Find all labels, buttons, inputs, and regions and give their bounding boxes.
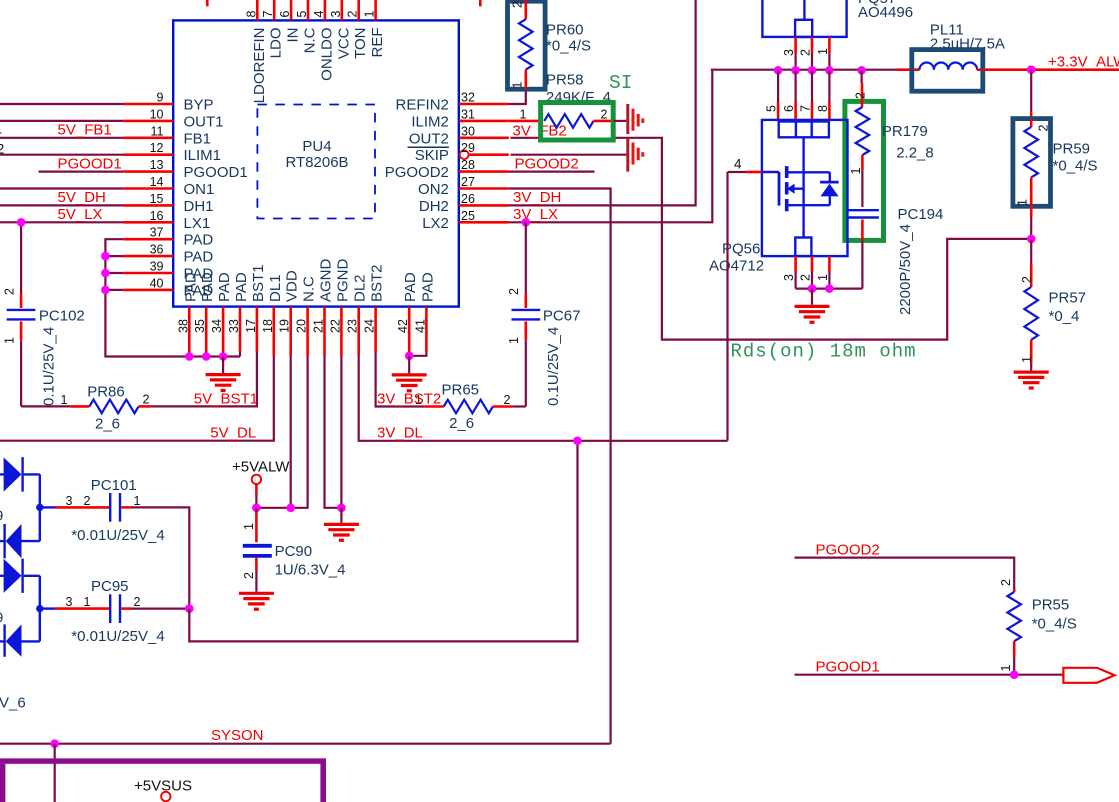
- svg-text:AO4712: AO4712: [709, 258, 764, 275]
- svg-text:33: 33: [227, 319, 241, 333]
- wire PAD 36 stub: [105, 255, 123, 257]
- svg-text:1: 1: [134, 494, 141, 508]
- svg-text:*0_4/S: *0_4/S: [1032, 616, 1077, 633]
- pin 26 DH2: [419, 192, 509, 215]
- wire PGND riser: [340, 356, 342, 508]
- pin 35 PAD bottom: [193, 272, 216, 352]
- pin 11 FB1: [123, 124, 211, 147]
- svg-text:15: 15: [150, 192, 164, 206]
- wire 3V_BST2 to pin24: [512, 405, 525, 407]
- svg-text:19: 19: [278, 319, 292, 333]
- svg-text:REFIN2: REFIN2: [396, 97, 449, 114]
- svg-text:PAD: PAD: [182, 272, 199, 302]
- pin 17 BST1: [244, 264, 267, 352]
- svg-text:7: 7: [799, 105, 813, 112]
- svg-text:14: 14: [150, 175, 164, 189]
- svg-text:PGOOD2: PGOOD2: [816, 541, 880, 558]
- wire pad 41 bend: [409, 352, 426, 356]
- wire diode pair 1 link: [39, 474, 41, 541]
- transistor Q2 PQ56 AO4712 low side: [709, 120, 848, 275]
- wire pad 33 to bus: [239, 352, 241, 357]
- wire ON2 to SYSON: [509, 189, 611, 744]
- node diode2 junction: [36, 605, 43, 612]
- wire ILIM1 net: [0, 141, 123, 157]
- pin 18 DL1: [261, 274, 284, 356]
- node rail junction PR179: [857, 66, 866, 75]
- svg-text:2: 2: [1037, 125, 1051, 132]
- svg-text:5: 5: [295, 11, 309, 18]
- wire PC95 out: [132, 607, 190, 609]
- wire pin24 to PR65: [376, 352, 425, 407]
- node pad38 junction: [185, 352, 194, 361]
- wire 3V_LX net: [509, 70, 713, 223]
- node source junction 2: [808, 284, 817, 293]
- svg-text:3V_LX: 3V_LX: [513, 206, 558, 223]
- svg-text:25: 25: [461, 209, 475, 223]
- svg-text:RT8206B: RT8206B: [285, 154, 348, 171]
- svg-text:DH2: DH2: [419, 198, 449, 215]
- pin 2 PQ56: [799, 256, 813, 289]
- svg-text:2200P/50V_4: 2200P/50V_4: [897, 224, 914, 315]
- wire diode pair 2 link: [39, 576, 41, 642]
- node diode1 junction: [36, 504, 43, 511]
- wire cut stub top right: [479, 0, 482, 6]
- svg-text:PR60: PR60: [546, 22, 584, 39]
- svg-text:PC95: PC95: [91, 578, 129, 595]
- svg-text:2: 2: [511, 1, 525, 8]
- svg-text:2: 2: [601, 107, 608, 121]
- svg-text:29: 29: [461, 141, 475, 155]
- pin 41 PAD bottom: [413, 272, 436, 352]
- svg-text:22: 22: [328, 319, 342, 333]
- pin 38 PAD bottom: [176, 272, 199, 352]
- node output junction: [1027, 65, 1036, 74]
- pin 42 PAD bottom: [396, 272, 419, 352]
- pin 3 PQ57: [782, 37, 796, 70]
- wire LX rail: [711, 69, 897, 71]
- svg-text:2: 2: [242, 572, 256, 579]
- wire PGOOD1 net bottom: [795, 674, 1064, 676]
- ground earth SKIP: [628, 138, 643, 172]
- svg-text:37: 37: [150, 226, 164, 240]
- svg-text:3V_DL: 3V_DL: [377, 425, 423, 442]
- svg-text:9: 9: [157, 91, 164, 105]
- wire pump to DL branch: [189, 441, 577, 642]
- node charge pump junction: [185, 604, 194, 613]
- svg-text:2: 2: [3, 288, 17, 295]
- pin 4 PQ56 gate: [728, 157, 762, 173]
- wire ground stem 42: [408, 356, 410, 374]
- pin 8 PQ56 riser: [816, 70, 830, 120]
- svg-text:PGOOD1: PGOOD1: [58, 155, 122, 172]
- pin 30 OUT2: [408, 124, 509, 147]
- svg-text:PR57: PR57: [1049, 290, 1087, 307]
- svg-text:0.1U/25V_4: 0.1U/25V_4: [41, 327, 58, 406]
- svg-text:34: 34: [210, 319, 224, 333]
- wire PR59 to divider node: [1030, 206, 1033, 239]
- svg-text:*0.01U/25V_4: *0.01U/25V_4: [71, 527, 164, 544]
- pin 32 REFIN2: [396, 91, 509, 114]
- svg-text:40: 40: [150, 276, 164, 290]
- capacitor PC102: [3, 222, 85, 406]
- svg-text:35: 35: [193, 319, 207, 333]
- wire AGND riser bend: [325, 356, 342, 508]
- svg-text:2: 2: [799, 274, 813, 281]
- wire BYP net: [0, 103, 123, 105]
- node rail junction 6: [791, 66, 800, 75]
- inductor PL11 2.5uH/7.5A: [912, 22, 1005, 92]
- svg-text:18: 18: [261, 319, 275, 333]
- svg-text:PU4: PU4: [302, 138, 331, 155]
- wire +5VALW rail: [256, 356, 307, 508]
- svg-text:ON1: ON1: [184, 181, 215, 198]
- node VDD junction: [286, 504, 295, 513]
- wire rail red into PL11: [897, 68, 918, 71]
- svg-text:11: 11: [151, 124, 164, 138]
- node 5V_LX junction: [17, 218, 26, 227]
- svg-text:PGOOD1: PGOOD1: [816, 658, 880, 675]
- svg-text:+5VALW: +5VALW: [232, 459, 290, 476]
- wire PC194 to source bus: [861, 240, 863, 288]
- svg-text:39: 39: [150, 260, 164, 274]
- wire PAD 40 stub: [105, 289, 123, 291]
- svg-text:9: 9: [0, 610, 3, 627]
- wire output to PR59: [1030, 70, 1032, 119]
- svg-text:5V_DL: 5V_DL: [210, 425, 256, 442]
- wire diode1 output: [40, 506, 55, 508]
- svg-text:ILIM2: ILIM2: [411, 113, 449, 130]
- wire PAD 39 stub: [105, 272, 123, 274]
- wire pad 35 to bus: [205, 352, 207, 357]
- pin 3 PQ56: [782, 256, 796, 289]
- wire 5V_DL net: [0, 356, 274, 441]
- svg-text:28: 28: [461, 158, 475, 172]
- pin 12 ILIM1: [123, 141, 221, 164]
- svg-text:5V_FB1: 5V_FB1: [58, 122, 112, 139]
- wire OUT1 net: [0, 120, 123, 122]
- wire 5V_FB1 net: [0, 122, 123, 139]
- ground PR57 GND: [1014, 372, 1049, 388]
- svg-text:31: 31: [461, 107, 475, 121]
- pin 33 PAD bottom: [227, 272, 250, 352]
- diode D2 top pair lower: [0, 524, 40, 558]
- wire SYSON drop: [54, 744, 56, 802]
- svg-text:2: 2: [507, 288, 521, 295]
- svg-text:2: 2: [0, 141, 5, 157]
- wire PC101 out to corner: [132, 507, 190, 608]
- pin 15 DH1: [123, 192, 213, 215]
- svg-text:PAD: PAD: [419, 272, 436, 302]
- pin 39 PAD: [123, 260, 213, 283]
- svg-text:3: 3: [782, 49, 796, 56]
- svg-text:VDD: VDD: [284, 270, 301, 302]
- svg-text:REF: REF: [369, 28, 386, 58]
- svg-text:20: 20: [295, 319, 309, 333]
- svg-text:LDO: LDO: [268, 28, 285, 59]
- svg-text:17: 17: [244, 319, 258, 333]
- wire ground stem pads: [222, 357, 224, 374]
- pin 34 PAD bottom: [210, 272, 233, 352]
- svg-text:PR179: PR179: [882, 123, 928, 140]
- wire +5VALW down: [255, 484, 258, 508]
- pin 5 N.C top: [295, 0, 319, 53]
- svg-text:2: 2: [346, 11, 360, 18]
- svg-text:1: 1: [242, 523, 256, 530]
- svg-text:41: 41: [413, 319, 427, 333]
- svg-text:1: 1: [816, 48, 830, 55]
- capacitor PC101: [55, 477, 165, 544]
- node divider junction: [1027, 235, 1036, 244]
- wire pad 34 to bus: [222, 352, 224, 357]
- svg-text:1: 1: [84, 595, 91, 609]
- resistor PR179 2.2_8 and capacitor PC194 in green box: [845, 70, 884, 240]
- resistor PR59 *0_4/S in navy box: [1013, 119, 1098, 207]
- pin 16 LX1: [123, 209, 210, 232]
- pin 19 VDD: [278, 270, 301, 356]
- capacitor PC90: [242, 508, 346, 592]
- pin 6 IN: [278, 0, 302, 43]
- svg-text:FB1: FB1: [184, 130, 212, 147]
- svg-text:5: 5: [765, 105, 779, 112]
- diode D1 top pair upper: [0, 457, 40, 491]
- svg-text:PR59: PR59: [1053, 141, 1091, 158]
- svg-text:4: 4: [734, 157, 742, 172]
- wire 5V_DH net: [0, 189, 123, 206]
- resistor PR55 *0_4/S: [999, 579, 1077, 675]
- pin 36 PAD: [123, 243, 213, 266]
- svg-text:PC67: PC67: [543, 308, 581, 325]
- wire PGOOD2 stub: [509, 171, 595, 173]
- svg-text:PR65: PR65: [442, 382, 480, 399]
- wire 5V_BST1 left segment: [21, 405, 71, 407]
- svg-text:2: 2: [134, 595, 141, 609]
- pin 8 LDOREFIN: [244, 0, 267, 103]
- svg-text:*0_4/S: *0_4/S: [1053, 158, 1098, 175]
- svg-text:6: 6: [782, 105, 796, 112]
- wire VDD riser: [290, 356, 292, 508]
- svg-text:1: 1: [507, 337, 521, 344]
- node rail junction 5: [774, 66, 783, 75]
- svg-text:3V_BST2: 3V_BST2: [377, 391, 441, 408]
- svg-text:PGND: PGND: [334, 258, 351, 302]
- wire ILIM2 red run: [509, 120, 545, 123]
- svg-text:Rds(on) 18m ohm: Rds(on) 18m ohm: [731, 341, 917, 363]
- op-amp U1 main controller IC PU4 RT8206B body: [173, 20, 459, 306]
- svg-text:1: 1: [849, 168, 863, 175]
- pin 13 PGOOD1: [123, 158, 247, 181]
- svg-text:N.C: N.C: [302, 27, 319, 53]
- svg-text:ILIM1: ILIM1: [184, 147, 222, 164]
- wire cut stub top left: [206, 0, 209, 6]
- wire ground stem PGND: [340, 508, 342, 523]
- label PR58 refdes: [546, 72, 611, 107]
- svg-text:2: 2: [799, 49, 813, 56]
- diode D3 bottom pair upper: [0, 559, 40, 593]
- wire SKIP to earth: [511, 154, 627, 156]
- svg-text:DL1: DL1: [267, 274, 284, 302]
- pin 29 SKIP active-low bubble: [415, 141, 509, 164]
- power flag +5VSUS: [134, 778, 192, 802]
- wire OUT2 net path: [511, 138, 1032, 340]
- wire REFIN2 to PR60: [509, 89, 526, 104]
- pin 27 ON2: [418, 175, 509, 198]
- diode D4 bottom pair lower: [0, 624, 40, 656]
- pin 1 PQ56: [816, 256, 830, 289]
- wire 3V_DL net: [359, 356, 728, 441]
- svg-text:V_6: V_6: [0, 695, 26, 712]
- off-page connector PGOOD1: [1063, 668, 1114, 683]
- wire DL2 gate riser: [726, 172, 728, 441]
- pin 9 BYP: [123, 91, 213, 114]
- pin 23 DL2: [346, 274, 369, 356]
- svg-text:6: 6: [278, 11, 292, 18]
- svg-text:42: 42: [396, 319, 410, 333]
- svg-text:PAD: PAD: [199, 272, 216, 302]
- svg-text:PC194: PC194: [898, 206, 944, 223]
- svg-text:PGOOD2: PGOOD2: [515, 155, 579, 172]
- svg-text:3: 3: [782, 274, 796, 281]
- resistor PR65 2_6: [415, 382, 512, 432]
- svg-text:PR55: PR55: [1032, 597, 1070, 614]
- svg-text:36: 36: [150, 243, 164, 257]
- svg-text:2: 2: [504, 393, 511, 407]
- pin 10 OUT1: [123, 107, 223, 130]
- svg-text:30: 30: [461, 124, 475, 138]
- svg-text:DL2: DL2: [352, 274, 369, 302]
- svg-text:BST1: BST1: [250, 264, 267, 302]
- pin 21 AGND: [312, 258, 335, 356]
- svg-text:1U/6.3V_4: 1U/6.3V_4: [275, 561, 346, 578]
- svg-text:2: 2: [143, 392, 150, 406]
- svg-text:38: 38: [176, 319, 190, 333]
- svg-text:PAD: PAD: [184, 249, 214, 266]
- svg-text:1: 1: [520, 107, 527, 121]
- svg-text:PR58: PR58: [546, 72, 584, 89]
- svg-text:ON2: ON2: [418, 181, 449, 198]
- wire 5V_BST1 to pin17: [151, 352, 257, 406]
- label PR179: [882, 123, 934, 162]
- svg-text:2: 2: [1020, 276, 1034, 283]
- svg-text:1: 1: [3, 337, 17, 344]
- ground 42 GND: [392, 375, 427, 391]
- svg-text:27: 27: [461, 175, 475, 189]
- node 3V_LX junction: [522, 218, 531, 227]
- svg-text:4: 4: [312, 11, 326, 18]
- wire ON1 net: [0, 187, 123, 189]
- resistor PR86 2_6: [61, 383, 151, 432]
- wire PAD loop left: [105, 239, 240, 356]
- svg-text:3: 3: [329, 11, 343, 18]
- svg-text:PAD: PAD: [402, 272, 419, 302]
- pin 25 LX2: [422, 209, 509, 232]
- svg-text:23: 23: [346, 319, 360, 333]
- svg-text:1: 1: [816, 274, 830, 281]
- svg-text:BYP: BYP: [184, 97, 214, 114]
- pin 3 VCC: [329, 0, 353, 59]
- svg-text:*0_4/S: *0_4/S: [546, 38, 591, 55]
- svg-text:SYSON: SYSON: [211, 727, 264, 744]
- pin 6 PQ56 riser: [782, 70, 796, 120]
- svg-text:1: 1: [511, 82, 525, 89]
- ground PGND GND: [324, 524, 359, 540]
- wire PGOOD1 net: [39, 155, 124, 172]
- svg-text:12: 12: [150, 141, 164, 155]
- pin 40 PAD: [123, 276, 213, 299]
- svg-text:SI: SI: [609, 72, 632, 94]
- node PGOOD1 junction: [1010, 670, 1019, 679]
- svg-text:13: 13: [150, 158, 164, 172]
- node pad35 junction: [202, 352, 211, 361]
- resistor PR60 *0_4/S in navy box: [508, 0, 592, 89]
- svg-text:21: 21: [312, 319, 326, 333]
- svg-text:PGOOD1: PGOOD1: [184, 164, 248, 181]
- power box +5VSUS border: [0, 758, 326, 802]
- pin 7 PQ56 riser: [799, 70, 813, 120]
- svg-text:OUT2: OUT2: [409, 130, 449, 147]
- pin 4 ONLDO: [312, 0, 336, 81]
- svg-text:OUT1: OUT1: [184, 113, 224, 130]
- pin 24 BST2: [363, 264, 386, 352]
- wire 5V_LX net: [0, 206, 123, 223]
- svg-text:AGND: AGND: [318, 258, 335, 302]
- svg-text:1: 1: [363, 11, 377, 18]
- wire SYSON net: [0, 743, 611, 745]
- node PGND junction: [337, 504, 346, 513]
- svg-text:PC90: PC90: [275, 543, 313, 560]
- svg-text:IN: IN: [285, 28, 302, 43]
- pin 2 TON: [346, 0, 370, 59]
- svg-text:SKIP: SKIP: [415, 147, 449, 164]
- pin 20 N.C bottom: [295, 276, 318, 356]
- svg-text:BST2: BST2: [369, 264, 386, 302]
- pin 2 PQ57: [799, 37, 813, 70]
- capacitor PC67: [507, 222, 580, 406]
- svg-text:1: 1: [999, 665, 1013, 672]
- resistor PR58 249K/F_4 in green box: [513, 103, 614, 141]
- svg-text:2_6: 2_6: [449, 415, 474, 432]
- resistor PR57 *0_4: [1020, 239, 1086, 371]
- svg-text:5V_DH: 5V_DH: [58, 189, 106, 206]
- wire ILIM2 to earth: [613, 120, 626, 122]
- pin 31 ILIM2: [411, 107, 508, 130]
- svg-text:LX1: LX1: [184, 215, 211, 232]
- svg-text:8: 8: [816, 105, 830, 112]
- svg-text:3: 3: [66, 494, 73, 508]
- node rail junction 8: [825, 66, 834, 75]
- node SYSON junction: [50, 739, 59, 748]
- node PAD36 junction: [101, 252, 110, 261]
- svg-text:*0.01U/25V_4: *0.01U/25V_4: [71, 628, 164, 645]
- ground earth ILIM2: [628, 104, 643, 134]
- svg-text:+3.3V_ALW: +3.3V_ALW: [1048, 54, 1119, 71]
- svg-text:3V_DH: 3V_DH: [513, 189, 561, 206]
- capacitor PC95: [55, 578, 165, 645]
- wire ground stem PQ56: [811, 289, 813, 305]
- svg-text:1: 1: [61, 393, 68, 407]
- svg-text:LX2: LX2: [422, 215, 449, 232]
- svg-text:5V_LX: 5V_LX: [58, 206, 103, 223]
- power flag +5VALW: [232, 459, 290, 485]
- label PC194: [897, 206, 943, 315]
- pin 1 PQ57: [816, 37, 830, 70]
- svg-text:2_6: 2_6: [95, 415, 120, 432]
- pin 1 REF: [363, 0, 387, 58]
- svg-text:16: 16: [150, 209, 164, 223]
- node pad42 junction: [405, 352, 414, 361]
- svg-text:4: 4: [0, 123, 2, 139]
- node pad34 junction: [219, 352, 228, 361]
- svg-text:PAD: PAD: [216, 272, 233, 302]
